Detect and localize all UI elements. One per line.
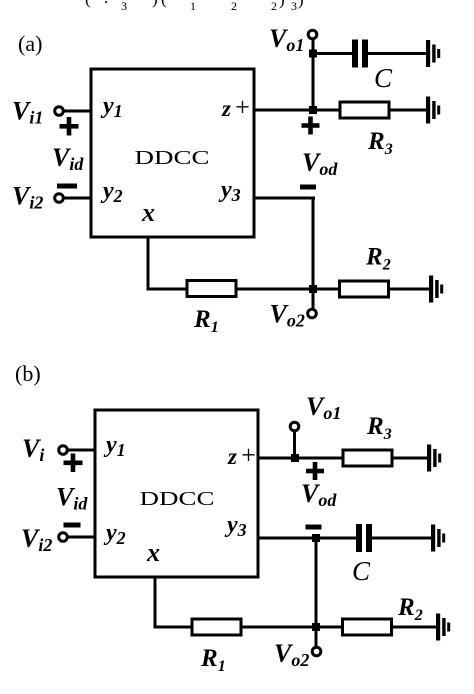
wire bottom row (fig a) <box>147 288 431 291</box>
ground at R3 (fig b) <box>427 445 441 472</box>
equation fragment (cropped at top) <box>85 0 304 13</box>
svg-text:3: 3 <box>291 0 297 13</box>
resistor R2 (fig b) <box>343 619 392 635</box>
minus sign at y2 input (fig a) <box>57 184 77 189</box>
junction at capacitor branch (fig a) <box>309 50 317 58</box>
ground at capacitor (fig a) <box>426 40 440 67</box>
wire capacitor right (fig b) <box>371 537 432 540</box>
svg-text:Vid: Vid <box>56 483 88 514</box>
resistor R1 (fig b) <box>192 619 241 635</box>
svg-text:R3: R3 <box>366 413 392 443</box>
wire Vo2 stem (fig b) <box>315 627 318 647</box>
wire y3 output (fig a) <box>254 197 315 200</box>
svg-text:R2: R2 <box>397 594 423 624</box>
svg-text:): ) <box>279 0 285 9</box>
resistor R3 (fig a) <box>340 102 389 118</box>
svg-text:Vi1: Vi1 <box>12 97 43 128</box>
wire y3 output (fig b) <box>258 537 357 540</box>
junction on z+ wire (fig a) <box>309 106 317 114</box>
svg-text:y1: y1 <box>103 432 126 460</box>
svg-text:y2: y2 <box>100 178 123 206</box>
wire y3 junction vertical (fig b) <box>315 538 318 628</box>
plus sign of Vod (fig a) <box>302 117 320 135</box>
svg-text:Vi2: Vi2 <box>21 524 52 555</box>
svg-text:Vod: Vod <box>301 479 337 510</box>
svg-text:): ) <box>298 0 304 9</box>
input terminal Vi2 (fig a) <box>55 194 64 203</box>
wire y1 input (fig b) <box>67 449 95 452</box>
resistor R3 (fig b) <box>343 450 392 466</box>
svg-text:2: 2 <box>271 0 277 13</box>
svg-text:R1: R1 <box>200 645 226 675</box>
wire z+ output (fig a) <box>254 109 427 112</box>
junction on y3 wire (fig b) <box>312 534 320 542</box>
svg-text:R1: R1 <box>193 306 219 336</box>
wire y2 input (fig b) <box>67 536 95 539</box>
capacitor C (fig b) <box>356 524 372 552</box>
junction on bottom wire (fig a) <box>309 285 317 293</box>
junction on bottom wire (fig b) <box>312 623 320 631</box>
wire capacitor branch right (fig a) <box>366 52 427 55</box>
minus sign of Vod (fig a) <box>300 185 316 190</box>
svg-text:C: C <box>352 556 371 586</box>
minus sign at y2 input (fig b) <box>64 523 81 528</box>
DDCC block U1 (fig a) <box>91 69 254 237</box>
wire z+ output (fig b) <box>258 457 428 460</box>
wire y2 input (fig a) <box>63 197 91 200</box>
svg-text:1: 1 <box>190 0 196 13</box>
svg-text:z+: z+ <box>227 441 257 470</box>
resistor R1 (fig a) <box>187 281 236 297</box>
ground at R2 (fig a) <box>429 276 443 303</box>
plus sign at y1 input (fig a) <box>60 117 79 136</box>
svg-text:z+: z+ <box>221 93 251 122</box>
svg-text:Vo1: Vo1 <box>306 392 341 423</box>
capacitor C (fig a) <box>352 40 368 68</box>
svg-text:Vi: Vi <box>22 434 44 465</box>
svg-text:(: ( <box>161 0 167 8</box>
ground at R3 (fig a) <box>426 97 440 124</box>
svg-text:C: C <box>374 63 393 93</box>
svg-text:): ) <box>152 0 158 8</box>
svg-text:x: x <box>146 538 160 567</box>
ground at capacitor (fig b) <box>431 525 445 552</box>
svg-text:Vid: Vid <box>52 143 84 174</box>
junction on z+ wire (fig b) <box>291 454 299 462</box>
output terminal Vo1 (fig a) <box>308 30 317 39</box>
svg-text:2: 2 <box>231 0 237 13</box>
input terminal Vi1 (fig a) <box>55 107 64 116</box>
svg-text:Vod: Vod <box>302 148 338 179</box>
wire x stem (fig b) <box>154 577 157 628</box>
svg-text:(a): (a) <box>18 31 42 56</box>
wire Vo1 stem (fig b) <box>293 430 296 458</box>
resistor R2 (fig a) <box>340 281 389 297</box>
input terminal Vi (fig b) <box>59 446 68 455</box>
wire Vo2 stem (fig a) <box>312 289 315 309</box>
svg-text:y3: y3 <box>224 512 247 540</box>
wire capacitor branch left (fig a) <box>313 52 354 55</box>
wire y1 input (fig a) <box>63 110 91 113</box>
svg-text:DDCC: DDCC <box>135 147 210 169</box>
output terminal Vo2 (fig a) <box>308 309 317 318</box>
DDCC block U1 (fig b) <box>95 410 258 577</box>
wire y3 vertical (fig a) <box>312 197 315 291</box>
svg-text:y2: y2 <box>103 520 126 548</box>
svg-text:(: ( <box>85 0 91 8</box>
svg-text:(b): (b) <box>15 361 41 386</box>
plus sign of Vod (fig b) <box>306 462 324 480</box>
svg-text:Vo2: Vo2 <box>274 639 309 670</box>
svg-text:DDCC: DDCC <box>140 488 215 510</box>
wire x stem (fig a) <box>147 237 150 290</box>
svg-text:y1: y1 <box>100 93 123 121</box>
wire Vo1 stem (fig a) <box>312 38 315 111</box>
svg-text:y3: y3 <box>218 177 241 205</box>
svg-text:x: x <box>141 198 155 227</box>
svg-text:3: 3 <box>121 0 127 13</box>
input terminal Vi2 (fig b) <box>59 533 68 542</box>
svg-text:Vo2: Vo2 <box>270 300 305 331</box>
svg-text:.: . <box>104 0 108 7</box>
plus sign at y1 input (fig b) <box>64 454 83 473</box>
output terminal Vo1 (fig b) <box>290 422 299 431</box>
svg-text:Vi2: Vi2 <box>12 182 43 213</box>
wire bottom row (fig b) <box>154 626 437 629</box>
svg-text:R2: R2 <box>365 244 391 274</box>
output terminal Vo2 (fig b) <box>312 647 321 656</box>
svg-text:R3: R3 <box>367 128 393 158</box>
svg-text:Vo1: Vo1 <box>269 24 304 55</box>
ground at R2 (fig b) <box>436 614 450 641</box>
minus sign of Vod (fig b) <box>306 525 322 530</box>
